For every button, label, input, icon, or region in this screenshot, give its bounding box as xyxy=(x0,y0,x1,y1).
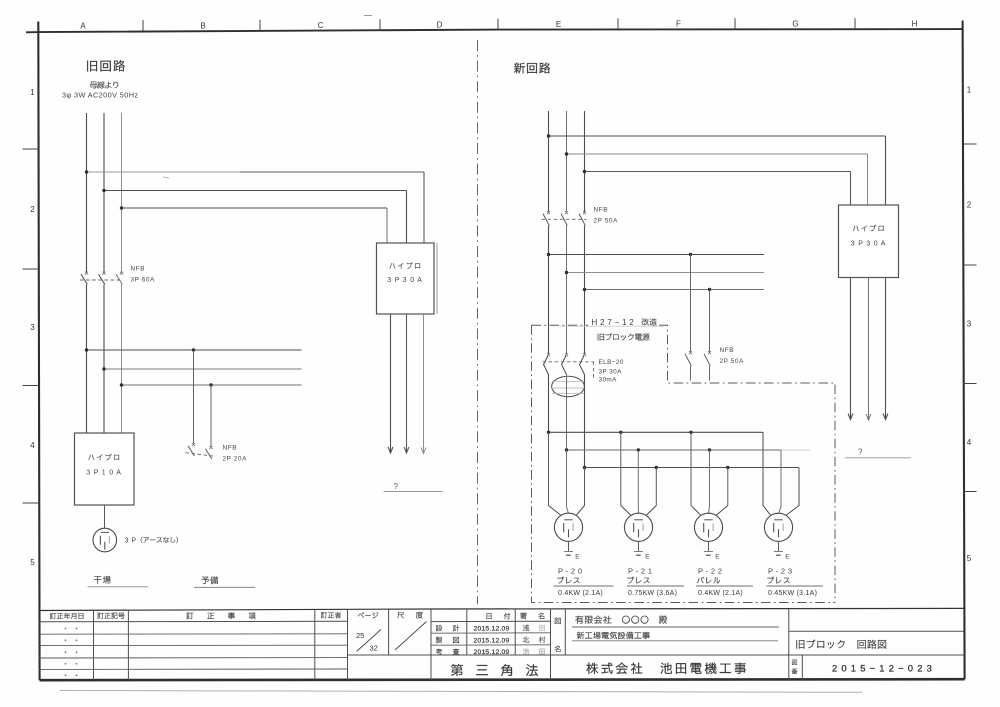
svg-text:4: 4 xyxy=(967,438,972,447)
label NFB 2P 50A main xyxy=(594,207,619,225)
bus B horizontal to 3P30A box xyxy=(104,191,407,244)
drawing title cell 旧ブロック回路図 xyxy=(789,609,964,680)
svg-text:2P 20A: 2P 20A xyxy=(223,456,248,463)
svg-text:B: B xyxy=(200,21,205,30)
svg-text:5: 5 xyxy=(30,558,35,567)
outlet bus 2 horizontal xyxy=(567,450,811,506)
wire R1 below main breaker xyxy=(548,226,550,354)
svg-text:2: 2 xyxy=(30,205,35,214)
outlet socket P-22 xyxy=(694,513,722,541)
label NFB 2P 20A xyxy=(223,445,248,463)
svg-text:G: G xyxy=(792,20,798,29)
svg-text:1: 1 xyxy=(30,88,35,97)
svg-text:0.45KW (3.1A): 0.45KW (3.1A) xyxy=(768,590,817,597)
svg-text:2P 50A: 2P 50A xyxy=(594,218,619,225)
revision table xyxy=(39,609,348,680)
svg-text:3 P 3 0 A: 3 P 3 0 A xyxy=(387,277,422,284)
outlet bus 3 horizontal xyxy=(585,468,800,507)
label ELB-20 3P30A 30mA xyxy=(599,359,624,384)
wire from 3P10A to outlet xyxy=(104,505,106,528)
bus R-E horizontal xyxy=(567,272,765,274)
earth terminal of outlet P-20 xyxy=(564,541,580,561)
svg-text:P - 2 0: P - 2 0 xyxy=(558,567,582,576)
svg-text:E: E xyxy=(645,554,649,561)
svg-text:3 P 1 0 A: 3 P 1 0 A xyxy=(86,470,121,477)
svg-text:F: F xyxy=(676,20,681,29)
svg-text:NFB: NFB xyxy=(720,347,735,354)
label 3P no earth xyxy=(125,537,178,545)
wires down to outlet P-23 xyxy=(763,432,799,515)
svg-text:0.4KW (2.1A): 0.4KW (2.1A) xyxy=(558,590,603,597)
bus R-C to 3P30A box right xyxy=(585,172,851,206)
outlet socket 3P old circuit xyxy=(93,528,117,552)
bus F horizontal xyxy=(122,384,302,386)
wire R2 vertical xyxy=(566,111,568,212)
bus C horizontal to 3P30A box xyxy=(122,208,388,243)
svg-text:P - 2 3: P - 2 3 xyxy=(768,567,792,576)
node bus C tap xyxy=(120,206,123,209)
svg-text:3P 30A: 3P 30A xyxy=(599,369,623,376)
svg-text:NFB: NFB xyxy=(131,266,146,273)
svg-text:2015.12.09: 2015.12.09 xyxy=(473,626,509,633)
wire to NFB 2P20A pole 2 xyxy=(210,385,212,447)
node outlet bus 3 taps xyxy=(583,466,730,469)
zero phase CT of ELB xyxy=(551,376,585,396)
wire R3 below ELB xyxy=(584,375,586,468)
bus E horizontal xyxy=(104,368,302,370)
wire L1 below breaker xyxy=(86,284,88,433)
bus R-F horizontal xyxy=(585,289,765,291)
svg-text:0.75KW (3.6A): 0.75KW (3.6A) xyxy=(628,590,677,597)
bus R-B to 3P30A box right xyxy=(567,154,868,205)
wires down to outlet P-20 xyxy=(549,432,585,515)
node bus B tap xyxy=(102,189,105,192)
revision row dots xyxy=(65,628,78,677)
svg-text:?: ? xyxy=(394,482,399,491)
label old block power 旧ブロック電源 xyxy=(598,333,650,340)
svg-text:P - 2 1: P - 2 1 xyxy=(628,567,652,576)
third angle projection label 第三角法 xyxy=(451,664,538,676)
label P-22 machine xyxy=(696,567,753,598)
svg-text:3: 3 xyxy=(30,323,35,332)
label 干場 with underline xyxy=(88,576,149,587)
node bus R-F taps xyxy=(583,288,711,291)
wire L1 vertical xyxy=(86,113,88,272)
wire R1 vertical xyxy=(548,111,550,212)
svg-text:H27−12: H27−12 xyxy=(592,318,637,327)
molded box HAIBURO 3P30A left xyxy=(377,243,438,314)
label P-21 machine xyxy=(627,567,684,598)
node outlet bus 1 taps xyxy=(547,431,693,434)
bus R-D horizontal xyxy=(549,254,765,256)
svg-text:32: 32 xyxy=(370,644,378,653)
outlet socket P-23 xyxy=(764,513,792,541)
page column xyxy=(348,609,964,655)
svg-text:D: D xyxy=(437,20,443,29)
earth terminal of outlet P-22 xyxy=(704,541,720,561)
svg-text:30mA: 30mA xyxy=(599,377,618,384)
svg-text:?: ? xyxy=(858,448,863,457)
question mark label right xyxy=(845,448,911,458)
wire to NFB 2P50A right pole 2 xyxy=(709,290,711,352)
svg-text:2: 2 xyxy=(967,201,972,210)
label P-20 machine xyxy=(554,567,614,598)
node outlet bus 2 taps xyxy=(565,448,711,451)
drawing number column 図番 xyxy=(792,655,936,680)
scan speck xyxy=(364,15,372,17)
molded box HAIBURO 3P10A xyxy=(75,433,135,505)
svg-text:3P 60A: 3P 60A xyxy=(131,277,156,284)
svg-text:E: E xyxy=(715,554,719,561)
outlet bus 1 horizontal xyxy=(549,432,764,506)
svg-text:3 P 3 0 A: 3 P 3 0 A xyxy=(851,241,886,248)
outlet socket P-20 xyxy=(554,513,582,541)
node bus R-B tap xyxy=(565,152,568,155)
svg-text:2015.12.09: 2015.12.09 xyxy=(473,637,509,644)
source label 3phase AC200V 50Hz xyxy=(62,91,138,100)
wire to NFB 2P20A pole 1 xyxy=(193,350,195,444)
earth leakage breaker ELB-20 xyxy=(543,353,594,378)
source label 母線より xyxy=(90,81,118,88)
node bus R-D taps xyxy=(547,253,692,256)
svg-text:5: 5 xyxy=(967,554,972,563)
wire L2 below breaker xyxy=(103,284,105,433)
svg-text:E: E xyxy=(556,20,561,29)
node bus E tap xyxy=(102,367,105,370)
node bus R-E tap xyxy=(565,271,568,274)
customer name 有限会社OOO殿 xyxy=(572,616,779,627)
svg-text:3φ 3W AC200V 50Hz: 3φ 3W AC200V 50Hz xyxy=(62,91,138,100)
wire R3 below main breaker xyxy=(584,226,586,354)
wire R2 below ELB xyxy=(566,375,568,451)
svg-text:2P 50A: 2P 50A xyxy=(720,358,745,365)
svg-text:NFB: NFB xyxy=(594,207,609,214)
label NFB 2P 50A right xyxy=(720,347,745,365)
node bus R-C tap xyxy=(583,170,586,173)
old circuit title 旧回路 xyxy=(87,60,125,71)
title block top line xyxy=(39,608,964,610)
molded box HAIBURO 3P30A right xyxy=(839,205,899,278)
label NFB 3P 60A xyxy=(131,266,156,284)
svg-text:P - 2 2: P - 2 2 xyxy=(698,567,722,576)
new circuit title 新回路 xyxy=(514,63,550,74)
wire L3 vertical xyxy=(121,113,123,272)
scan speck 2 xyxy=(163,177,169,178)
svg-text:E: E xyxy=(575,554,579,561)
node bus A tap xyxy=(85,170,88,173)
svg-text:0.4KW (2.1A): 0.4KW (2.1A) xyxy=(698,590,743,597)
svg-text:ELB−20: ELB−20 xyxy=(599,359,624,366)
svg-text:25: 25 xyxy=(356,631,364,640)
bus R-A to 3P30A box right xyxy=(549,136,886,205)
svg-text:NFB: NFB xyxy=(223,445,238,452)
wires down to outlet P-21 xyxy=(621,432,657,515)
scale column xyxy=(395,609,431,680)
breaker NFB 3P 60A xyxy=(80,272,123,285)
bus D horizontal xyxy=(87,349,302,351)
svg-text:E: E xyxy=(785,554,789,561)
project name 新工場電気設備工事 xyxy=(572,632,778,641)
label 予備 with underline xyxy=(194,576,255,587)
date signature table xyxy=(431,609,551,680)
svg-text:H: H xyxy=(912,19,918,28)
modification boundary dash-dot box xyxy=(532,325,836,602)
svg-text:3: 3 xyxy=(967,320,972,329)
wire to NFB 2P50A right pole 1 xyxy=(690,255,692,352)
svg-text:2015−12−023: 2015−12−023 xyxy=(832,663,936,674)
breaker NFB 2P 50A right xyxy=(685,351,711,381)
drawing name column 図名 xyxy=(555,609,566,655)
svg-text:1: 1 xyxy=(967,86,972,95)
revision table headers xyxy=(50,612,341,619)
company name 株式会社池田電機工事 xyxy=(586,663,745,674)
wires down to outlet P-22 xyxy=(691,432,728,515)
label H27-12 modification xyxy=(592,318,657,327)
breaker NFB 2P 50A main xyxy=(542,211,587,226)
center divider dash-dot line xyxy=(477,40,479,604)
earth terminal of outlet P-21 xyxy=(634,541,650,561)
node bus R-A tap xyxy=(547,134,550,137)
wire L3 below breaker xyxy=(121,284,123,433)
earth terminal of outlet P-23 xyxy=(774,541,790,561)
wire L2 vertical xyxy=(103,113,105,272)
question mark label xyxy=(384,482,443,492)
bus A horizontal to 3P30A box xyxy=(87,172,425,243)
svg-text:A: A xyxy=(80,22,86,31)
wire R2 below main breaker xyxy=(566,226,568,354)
label P-23 machine xyxy=(767,567,824,598)
svg-text:2015.12.09: 2015.12.09 xyxy=(473,649,509,656)
node bus F taps xyxy=(120,383,213,386)
feeder arrows below 3P30A box xyxy=(388,314,426,454)
svg-text:4: 4 xyxy=(30,441,35,450)
wire R3 vertical xyxy=(584,111,586,212)
breaker NFB 2P 20A xyxy=(186,443,215,459)
wire R1 below ELB xyxy=(548,375,550,433)
svg-text:3 P: 3 P xyxy=(125,538,137,545)
node bus D taps xyxy=(85,348,195,351)
svg-text:C: C xyxy=(318,21,324,30)
outlet socket P-21 xyxy=(624,513,652,541)
feeder arrows below right 3P30A box xyxy=(848,278,888,421)
